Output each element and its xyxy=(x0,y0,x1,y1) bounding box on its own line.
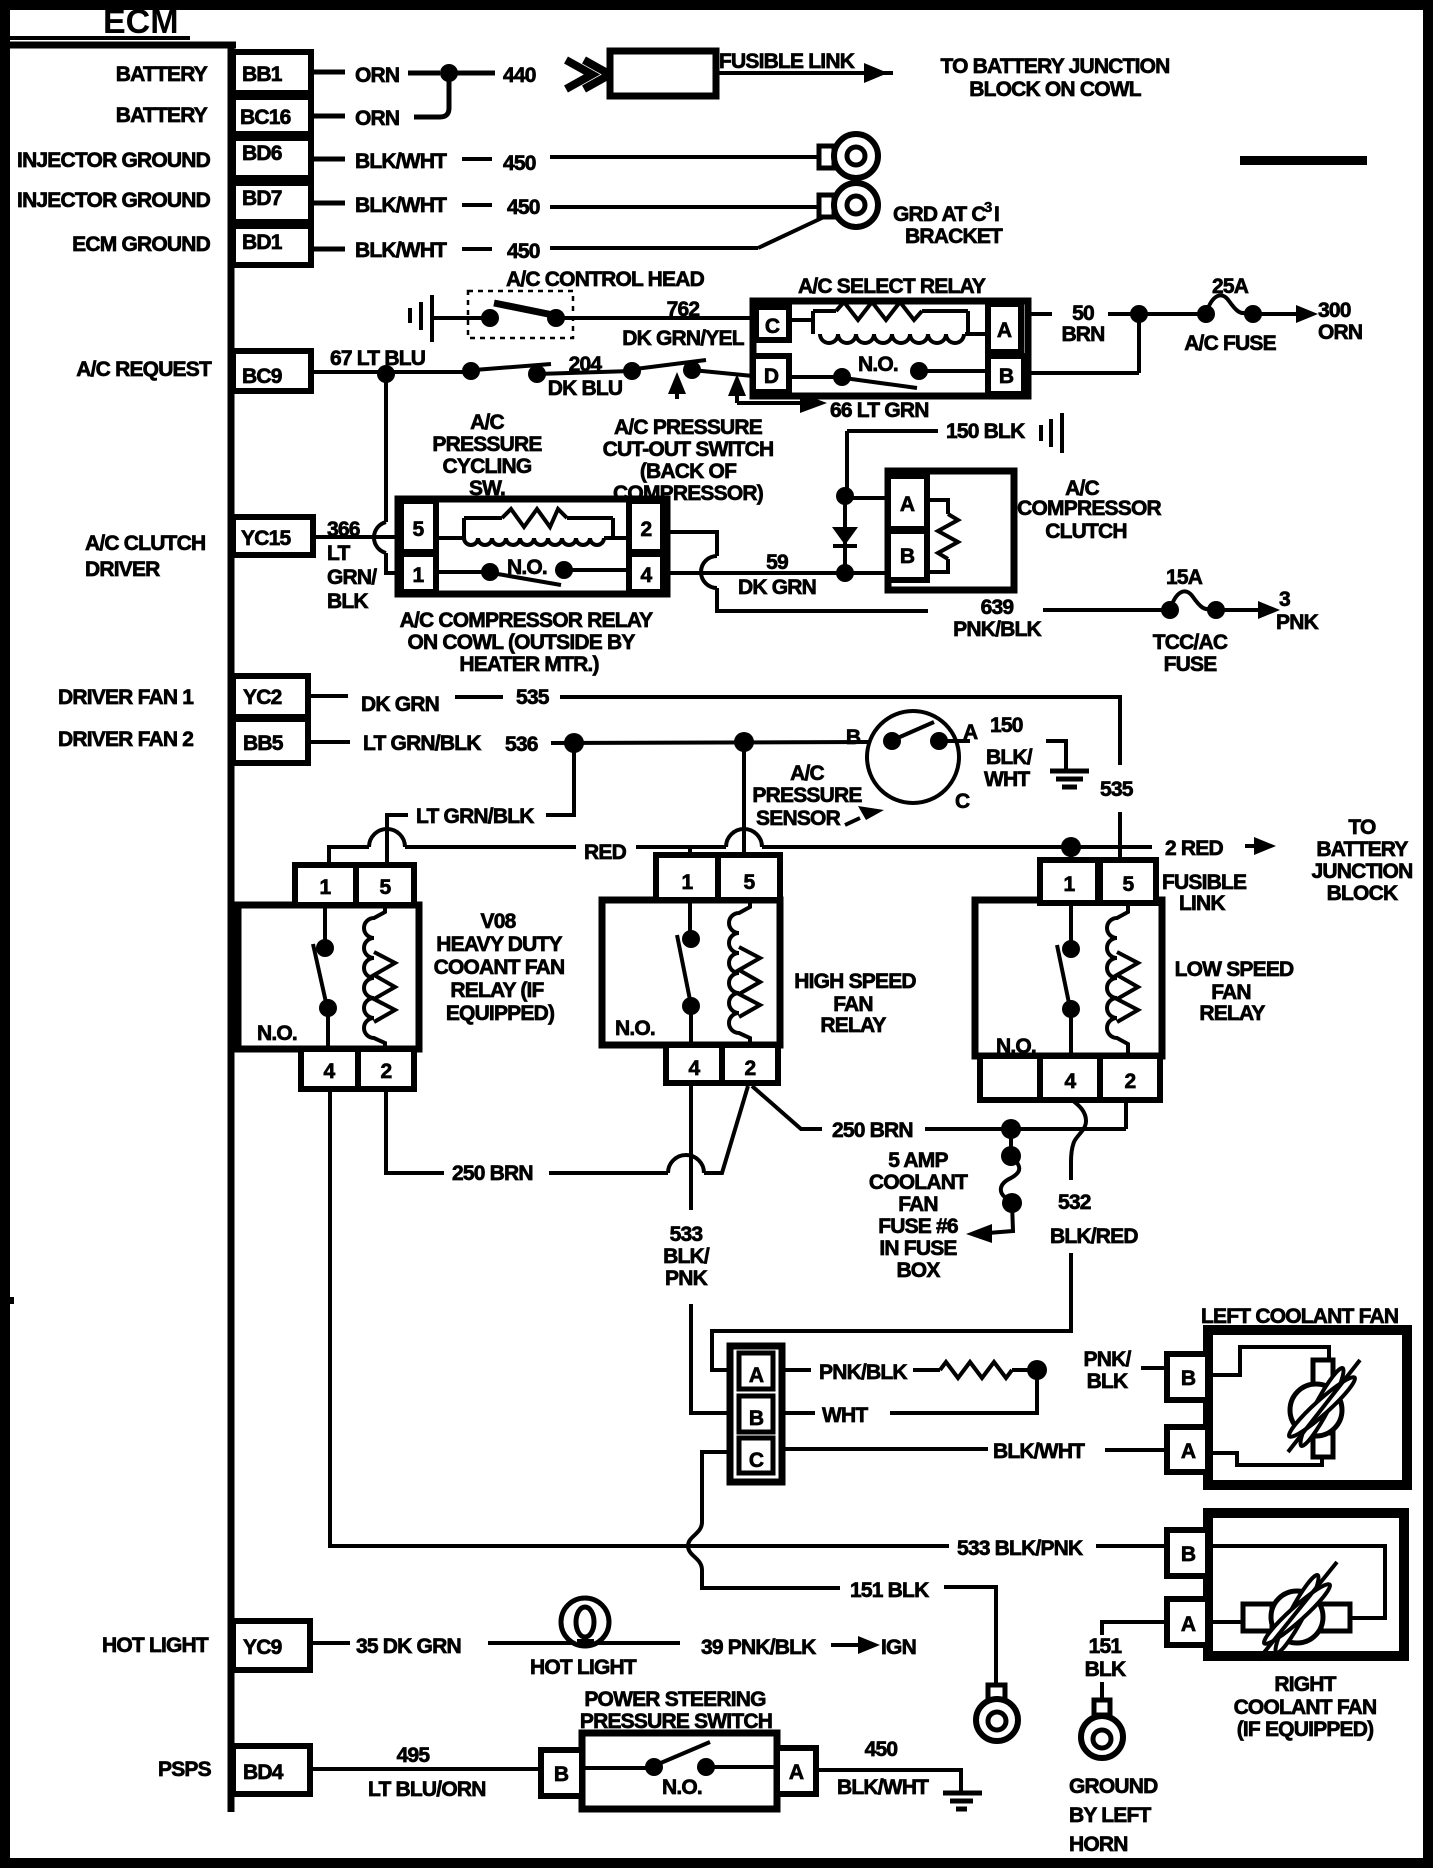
svg-text:BB1: BB1 xyxy=(242,63,283,86)
svg-text:RIGHT: RIGHT xyxy=(1274,1673,1336,1696)
svg-text:DRIVER FAN 1: DRIVER FAN 1 xyxy=(58,686,194,709)
svg-text:2: 2 xyxy=(641,518,652,541)
svg-text:FAN: FAN xyxy=(1211,981,1251,1004)
svg-text:59: 59 xyxy=(766,551,788,574)
svg-text:BD6: BD6 xyxy=(242,142,282,165)
svg-text:1: 1 xyxy=(1064,873,1076,896)
svg-text:5 AMP: 5 AMP xyxy=(888,1149,948,1172)
svg-text:BLK/: BLK/ xyxy=(663,1245,710,1268)
svg-text:WHT: WHT xyxy=(984,768,1030,791)
svg-text:A: A xyxy=(997,319,1012,342)
svg-text:A/C REQUEST: A/C REQUEST xyxy=(76,358,212,381)
svg-text:PNK: PNK xyxy=(1276,611,1319,634)
svg-text:(BACK OF: (BACK OF xyxy=(640,460,737,483)
svg-text:YC9: YC9 xyxy=(243,1636,282,1659)
svg-text:PNK: PNK xyxy=(665,1267,708,1290)
svg-text:150: 150 xyxy=(990,714,1023,737)
svg-text:A: A xyxy=(749,1364,764,1387)
svg-text:FAN: FAN xyxy=(898,1193,938,1216)
svg-text:LT: LT xyxy=(327,542,350,565)
svg-text:COOLANT: COOLANT xyxy=(869,1171,968,1194)
svg-text:450: 450 xyxy=(865,1738,898,1761)
svg-text:HOT LIGHT: HOT LIGHT xyxy=(102,1634,209,1657)
svg-text:B: B xyxy=(1181,1543,1196,1566)
svg-text:3: 3 xyxy=(1279,588,1290,611)
svg-text:POWER STEERING: POWER STEERING xyxy=(584,1688,766,1711)
svg-text:COOLANT FAN: COOLANT FAN xyxy=(1234,1696,1377,1719)
svg-text:450: 450 xyxy=(507,240,540,263)
svg-text:FAN: FAN xyxy=(833,993,873,1016)
svg-text:N.O.: N.O. xyxy=(996,1035,1036,1058)
svg-text:JUNCTION: JUNCTION xyxy=(1312,860,1413,883)
svg-text:4: 4 xyxy=(689,1057,701,1080)
svg-text:A/C PRESSURE: A/C PRESSURE xyxy=(614,416,763,439)
svg-text:BLK/RED: BLK/RED xyxy=(1050,1225,1138,1248)
svg-text:INJECTOR GROUND: INJECTOR GROUND xyxy=(17,149,211,172)
svg-text:RED: RED xyxy=(584,841,627,864)
svg-text:WHT: WHT xyxy=(822,1404,868,1427)
svg-text:495: 495 xyxy=(397,1744,431,1767)
svg-text:533: 533 xyxy=(670,1223,703,1246)
svg-text:BC9: BC9 xyxy=(242,365,282,388)
svg-text:150 BLK: 150 BLK xyxy=(946,420,1025,443)
svg-text:5: 5 xyxy=(380,876,392,899)
svg-text:BATTERY: BATTERY xyxy=(116,104,208,127)
svg-text:N.O.: N.O. xyxy=(615,1017,655,1040)
svg-text:LT BLU/ORN: LT BLU/ORN xyxy=(368,1778,486,1801)
svg-text:ORN: ORN xyxy=(355,64,399,87)
svg-text:I: I xyxy=(994,203,999,226)
svg-text:535: 535 xyxy=(516,686,550,709)
svg-text:DRIVER: DRIVER xyxy=(85,558,160,581)
svg-text:BLK: BLK xyxy=(327,590,368,613)
svg-text:TCC/AC: TCC/AC xyxy=(1153,631,1228,654)
svg-text:450: 450 xyxy=(507,196,540,219)
svg-text:V08: V08 xyxy=(481,910,517,933)
svg-text:FUSIBLE LINK: FUSIBLE LINK xyxy=(719,50,855,73)
svg-text:1: 1 xyxy=(682,871,694,894)
svg-text:ORN: ORN xyxy=(355,107,399,130)
svg-text:50: 50 xyxy=(1072,302,1094,325)
svg-text:BRN: BRN xyxy=(1061,323,1104,346)
svg-text:A/C CLUTCH: A/C CLUTCH xyxy=(85,532,205,555)
svg-text:2: 2 xyxy=(745,1057,756,1080)
svg-text:YC2: YC2 xyxy=(243,686,282,709)
svg-text:IGN: IGN xyxy=(881,1636,916,1659)
svg-text:DK GRN: DK GRN xyxy=(738,576,816,599)
svg-text:BD7: BD7 xyxy=(242,187,282,210)
svg-text:ECM GROUND: ECM GROUND xyxy=(72,233,210,256)
svg-text:(IF EQUIPPED): (IF EQUIPPED) xyxy=(1237,1718,1374,1741)
svg-text:PRESSURE: PRESSURE xyxy=(752,784,862,807)
svg-text:HIGH SPEED: HIGH SPEED xyxy=(794,970,916,993)
svg-text:COMPRESSOR: COMPRESSOR xyxy=(1017,497,1161,520)
svg-text:LT GRN/BLK: LT GRN/BLK xyxy=(416,805,534,828)
svg-text:BATTERY: BATTERY xyxy=(116,63,208,86)
svg-text:RELAY: RELAY xyxy=(1199,1002,1265,1025)
svg-text:BLK: BLK xyxy=(1085,1658,1126,1681)
svg-text:151: 151 xyxy=(1089,1635,1123,1658)
svg-text:IN FUSE: IN FUSE xyxy=(879,1237,957,1260)
svg-text:GRD AT C: GRD AT C xyxy=(893,203,986,226)
svg-text:2 RED: 2 RED xyxy=(1165,837,1223,860)
svg-text:151 BLK: 151 BLK xyxy=(850,1579,929,1602)
svg-text:PNK/BLK: PNK/BLK xyxy=(953,618,1041,641)
svg-text:FUSE: FUSE xyxy=(1164,653,1218,676)
svg-text:2: 2 xyxy=(1125,1070,1136,1093)
svg-text:HEAVY DUTY: HEAVY DUTY xyxy=(436,933,562,956)
svg-text:533 BLK/PNK: 533 BLK/PNK xyxy=(957,1537,1083,1560)
svg-text:LINK: LINK xyxy=(1179,892,1225,915)
svg-text:5: 5 xyxy=(744,871,756,894)
svg-text:GROUND: GROUND xyxy=(1069,1775,1158,1798)
svg-text:RELAY (IF: RELAY (IF xyxy=(450,979,544,1002)
svg-text:INJECTOR GROUND: INJECTOR GROUND xyxy=(17,189,211,212)
svg-text:PSPS: PSPS xyxy=(158,1758,212,1781)
svg-text:PRESSURE: PRESSURE xyxy=(432,433,542,456)
svg-text:450: 450 xyxy=(503,152,536,175)
svg-text:535: 535 xyxy=(1100,778,1134,801)
svg-text:HEATER MTR.): HEATER MTR.) xyxy=(459,653,598,676)
svg-text:FUSE #6: FUSE #6 xyxy=(878,1215,958,1238)
svg-text:536: 536 xyxy=(505,733,538,756)
svg-text:B: B xyxy=(999,365,1014,388)
svg-text:5: 5 xyxy=(1123,873,1135,896)
svg-text:A: A xyxy=(900,493,915,516)
svg-text:BLK/WHT: BLK/WHT xyxy=(355,150,447,173)
svg-text:A/C CONTROL HEAD: A/C CONTROL HEAD xyxy=(506,268,705,291)
svg-text:PNK/: PNK/ xyxy=(1084,1348,1132,1371)
svg-text:BRACKET: BRACKET xyxy=(905,225,1003,248)
svg-text:BY LEFT: BY LEFT xyxy=(1069,1804,1151,1827)
svg-text:LEFT COOLANT FAN: LEFT COOLANT FAN xyxy=(1201,1305,1398,1328)
svg-text:250 BRN: 250 BRN xyxy=(832,1119,913,1142)
svg-text:SENSOR: SENSOR xyxy=(756,807,841,830)
svg-text:5: 5 xyxy=(413,518,425,541)
svg-text:440: 440 xyxy=(503,64,536,87)
svg-text:BLK/WHT: BLK/WHT xyxy=(355,194,447,217)
svg-text:N.O.: N.O. xyxy=(662,1776,702,1799)
svg-text:A/C FUSE: A/C FUSE xyxy=(1184,332,1276,355)
svg-text:A/C: A/C xyxy=(470,411,504,434)
svg-text:DK GRN: DK GRN xyxy=(361,693,439,716)
svg-text:BLK/: BLK/ xyxy=(986,746,1033,769)
svg-text:A: A xyxy=(1181,1613,1196,1636)
svg-text:N.O.: N.O. xyxy=(257,1022,297,1045)
svg-text:A/C: A/C xyxy=(790,762,824,785)
svg-text:B: B xyxy=(846,726,861,749)
svg-text:C: C xyxy=(955,790,970,813)
svg-text:DRIVER FAN 2: DRIVER FAN 2 xyxy=(58,728,193,751)
svg-text:A/C SELECT RELAY: A/C SELECT RELAY xyxy=(798,275,986,298)
svg-text:39 PNK/BLK: 39 PNK/BLK xyxy=(701,1636,816,1659)
svg-text:TO: TO xyxy=(1348,816,1376,839)
svg-text:C: C xyxy=(765,315,780,338)
svg-text:762: 762 xyxy=(667,298,700,321)
svg-text:BD1: BD1 xyxy=(242,231,283,254)
svg-text:532: 532 xyxy=(1058,1191,1091,1214)
svg-text:COOANT FAN: COOANT FAN xyxy=(434,956,565,979)
svg-text:300: 300 xyxy=(1318,299,1351,322)
svg-text:BLK/WHT: BLK/WHT xyxy=(993,1440,1085,1463)
svg-text:ECM: ECM xyxy=(103,3,179,41)
svg-text:BC16: BC16 xyxy=(240,106,291,129)
svg-text:2: 2 xyxy=(381,1060,392,1083)
svg-text:D: D xyxy=(764,365,779,388)
svg-text:TO BATTERY JUNCTION: TO BATTERY JUNCTION xyxy=(940,55,1169,78)
svg-text:A: A xyxy=(963,721,978,744)
svg-text:CUT-OUT SWITCH: CUT-OUT SWITCH xyxy=(603,438,774,461)
svg-text:BLK/WHT: BLK/WHT xyxy=(837,1776,929,1799)
svg-text:66 LT GRN: 66 LT GRN xyxy=(830,399,929,422)
svg-text:1: 1 xyxy=(320,876,332,899)
svg-text:FUSIBLE: FUSIBLE xyxy=(1162,871,1247,894)
svg-text:A: A xyxy=(789,1761,804,1784)
svg-text:B: B xyxy=(1181,1367,1196,1390)
svg-text:B: B xyxy=(554,1763,569,1786)
svg-text:BLOCK: BLOCK xyxy=(1327,882,1398,905)
svg-text:BOX: BOX xyxy=(896,1259,940,1282)
svg-text:CYCLING: CYCLING xyxy=(443,455,532,478)
svg-text:250 BRN: 250 BRN xyxy=(452,1162,533,1185)
svg-text:ORN: ORN xyxy=(1318,321,1362,344)
svg-text:LOW SPEED: LOW SPEED xyxy=(1175,958,1294,981)
svg-text:4: 4 xyxy=(641,564,653,587)
svg-text:BATTERY: BATTERY xyxy=(1316,838,1408,861)
svg-text:35 DK GRN: 35 DK GRN xyxy=(356,1635,461,1658)
svg-text:PNK/BLK: PNK/BLK xyxy=(819,1361,907,1384)
svg-text:DK GRN/YEL: DK GRN/YEL xyxy=(622,327,744,350)
svg-text:204: 204 xyxy=(569,353,603,376)
svg-text:N.O.: N.O. xyxy=(858,353,898,376)
svg-text:BD4: BD4 xyxy=(243,1761,284,1784)
svg-text:CLUTCH: CLUTCH xyxy=(1045,520,1127,543)
svg-text:HOT LIGHT: HOT LIGHT xyxy=(530,1656,637,1679)
svg-text:B: B xyxy=(749,1407,764,1430)
svg-text:DK BLU: DK BLU xyxy=(548,377,623,400)
svg-text:A/C COMPRESSOR RELAY: A/C COMPRESSOR RELAY xyxy=(400,609,654,632)
svg-text:EQUIPPED): EQUIPPED) xyxy=(446,1002,554,1025)
svg-text:639: 639 xyxy=(981,596,1014,619)
svg-text:67 LT BLU: 67 LT BLU xyxy=(330,347,425,370)
svg-text:BLOCK ON COWL: BLOCK ON COWL xyxy=(969,78,1142,101)
svg-text:3: 3 xyxy=(984,199,992,216)
svg-text:B: B xyxy=(900,545,915,568)
svg-text:RELAY: RELAY xyxy=(820,1014,886,1037)
svg-text:YC15: YC15 xyxy=(241,527,291,550)
svg-text:A: A xyxy=(1181,1440,1196,1463)
svg-text:15A: 15A xyxy=(1166,566,1203,589)
svg-text:BB5: BB5 xyxy=(243,732,284,755)
svg-text:BLK/WHT: BLK/WHT xyxy=(355,239,447,262)
svg-text:C: C xyxy=(749,1449,764,1472)
svg-text:4: 4 xyxy=(1065,1070,1077,1093)
svg-text:LT GRN/BLK: LT GRN/BLK xyxy=(363,732,481,755)
svg-text:BLK: BLK xyxy=(1087,1370,1128,1393)
svg-text:4: 4 xyxy=(324,1060,336,1083)
svg-text:1: 1 xyxy=(413,564,425,587)
svg-text:GRN/: GRN/ xyxy=(327,566,377,589)
svg-text:ON COWL (OUTSIDE BY: ON COWL (OUTSIDE BY xyxy=(407,631,635,654)
svg-text:HORN: HORN xyxy=(1069,1833,1128,1856)
